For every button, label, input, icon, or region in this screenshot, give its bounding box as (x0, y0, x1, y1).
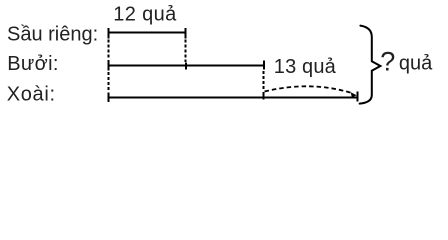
dashed drop from durian right end (185, 40, 187, 63)
pomelo middle tick (185, 63, 187, 70)
svg-text:12 quả: 12 quả (113, 4, 177, 26)
mango left tick (107, 93, 109, 102)
durian right tick (185, 28, 187, 38)
dashed drop from pomelo left end (107, 72, 109, 93)
pomelo segment line (107, 65, 264, 67)
arrowhead of arc (351, 92, 357, 97)
svg-text:?: ? (380, 46, 395, 76)
svg-text:Xoài:: Xoài: (7, 84, 56, 106)
pomelo right tick (263, 60, 265, 69)
svg-text:quả: quả (399, 53, 433, 75)
mango right tick (356, 91, 358, 101)
mango middle tick (263, 92, 265, 100)
durian left tick (107, 28, 109, 38)
svg-text:13 quả: 13 quả (274, 56, 337, 78)
svg-text:Sầu riêng:: Sầu riêng: (7, 24, 98, 46)
svg-text:Bưởi:: Bưởi: (7, 53, 59, 75)
dashed arc over the 13 quả extension (265, 86, 352, 92)
dashed drop from pomelo right end (263, 71, 265, 91)
dashed drop from durian left end (107, 40, 109, 60)
mango segment line (107, 97, 358, 99)
pomelo left tick (107, 60, 109, 71)
right curly brace (360, 26, 381, 104)
durian segment line (107, 32, 186, 34)
